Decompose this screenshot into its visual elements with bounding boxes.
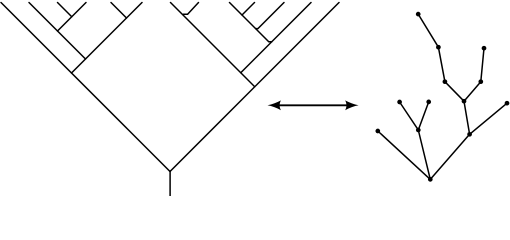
node J bbox=[462, 99, 467, 104]
branch B (leaf2) bbox=[29, 3, 86, 60]
leaf11 arm bbox=[256, 3, 284, 29]
double arrow bbox=[268, 100, 359, 110]
node B bbox=[436, 45, 441, 50]
node D bbox=[443, 79, 448, 84]
left spine bbox=[1, 3, 170, 172]
edge D-J bbox=[445, 82, 464, 102]
branch leaf7 bbox=[171, 3, 255, 87]
leaf4 line bbox=[58, 3, 87, 32]
node K bbox=[467, 132, 472, 137]
left arrowhead bbox=[268, 100, 282, 110]
node H bbox=[426, 100, 431, 105]
node L bbox=[505, 101, 510, 106]
edge G-I bbox=[400, 102, 419, 130]
leaf5 arm bbox=[111, 3, 127, 19]
edge E-J bbox=[464, 82, 481, 102]
node M root bbox=[428, 177, 433, 182]
edge H-I bbox=[418, 102, 428, 130]
right tree bbox=[378, 14, 507, 179]
leaf10 arm bbox=[242, 3, 255, 16]
edge B-D bbox=[438, 47, 445, 81]
leaf12 line bbox=[241, 3, 311, 73]
branch leaf9 bbox=[230, 3, 272, 42]
edge F-M bbox=[378, 131, 431, 179]
edge I-M bbox=[418, 130, 430, 179]
leaf3 arm bbox=[58, 3, 72, 17]
right arrowhead bbox=[345, 100, 359, 110]
node G bbox=[397, 100, 402, 105]
root stem bbox=[169, 171, 171, 197]
edge C-E bbox=[481, 48, 484, 81]
edge J-K bbox=[464, 101, 470, 134]
edge K-M bbox=[430, 134, 469, 179]
leaf6 line bbox=[72, 3, 143, 74]
node A bbox=[416, 12, 421, 17]
node C bbox=[482, 46, 487, 51]
node F bbox=[375, 129, 380, 134]
edge L-K bbox=[470, 103, 507, 134]
node I bbox=[416, 128, 421, 133]
node E bbox=[478, 79, 483, 84]
leaf8 arm bbox=[183, 3, 198, 15]
edge A-B bbox=[418, 14, 438, 47]
right spine bbox=[170, 3, 339, 172]
